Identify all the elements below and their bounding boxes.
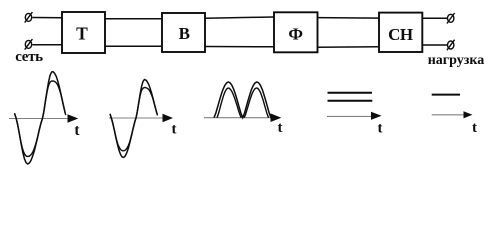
waveform 2 sine outer [110,80,157,158]
wire B-F bottom [205,46,274,48]
svg-text:t: t [378,120,383,136]
svg-text:Т: Т [76,24,88,44]
wire T-B bottom [105,45,162,47]
waveform 4 dc line upper [328,92,373,94]
svg-text:t: t [278,120,283,136]
svg-text:сеть: сеть [15,49,43,65]
waveform 1 axis (t) [9,114,80,139]
waveform 5 dc line [432,94,460,96]
svg-text:нагрузка: нагрузка [428,53,485,68]
waveform 2 axis (t) [109,114,177,138]
waveform 4 dc line lower [328,100,373,102]
waveform 1 sine inner [15,81,66,156]
waveform 2 sine inner [110,88,158,151]
waveform 3 rectified outer [214,82,271,118]
terminal output top (Ø) [447,13,455,24]
terminal output bottom (Ø) [447,40,455,51]
block T (transformer) [62,12,105,53]
wire input bottom rail [33,44,63,46]
wire F-CH bottom [318,46,380,49]
waveform 5 axis (t) [432,111,477,136]
waveform 4 axis (t) [327,112,383,137]
svg-text:В: В [179,24,190,43]
svg-text:СН: СН [388,25,413,44]
waveform 1 sine outer [15,72,66,164]
wire T-B top [105,18,162,20]
terminal input bottom (Ø) [25,39,33,50]
wire output bottom rail [422,44,447,46]
wire B-F top [205,17,274,18]
block F (filter) [274,12,318,52]
terminal input top (Ø) [25,12,33,23]
wire F-CH top [318,17,380,20]
svg-text:t: t [74,122,80,139]
block B (rectifier) [162,13,205,52]
svg-text:t: t [172,122,177,138]
block CH (stabilizer) [379,13,422,52]
svg-text:t: t [472,120,477,136]
waveform 3 axis (t) [204,113,283,136]
waveform 3 rectified inner [217,88,269,118]
svg-text:Ф: Ф [288,25,303,44]
wire output top rail [422,17,447,19]
wire input top rail [33,17,63,19]
